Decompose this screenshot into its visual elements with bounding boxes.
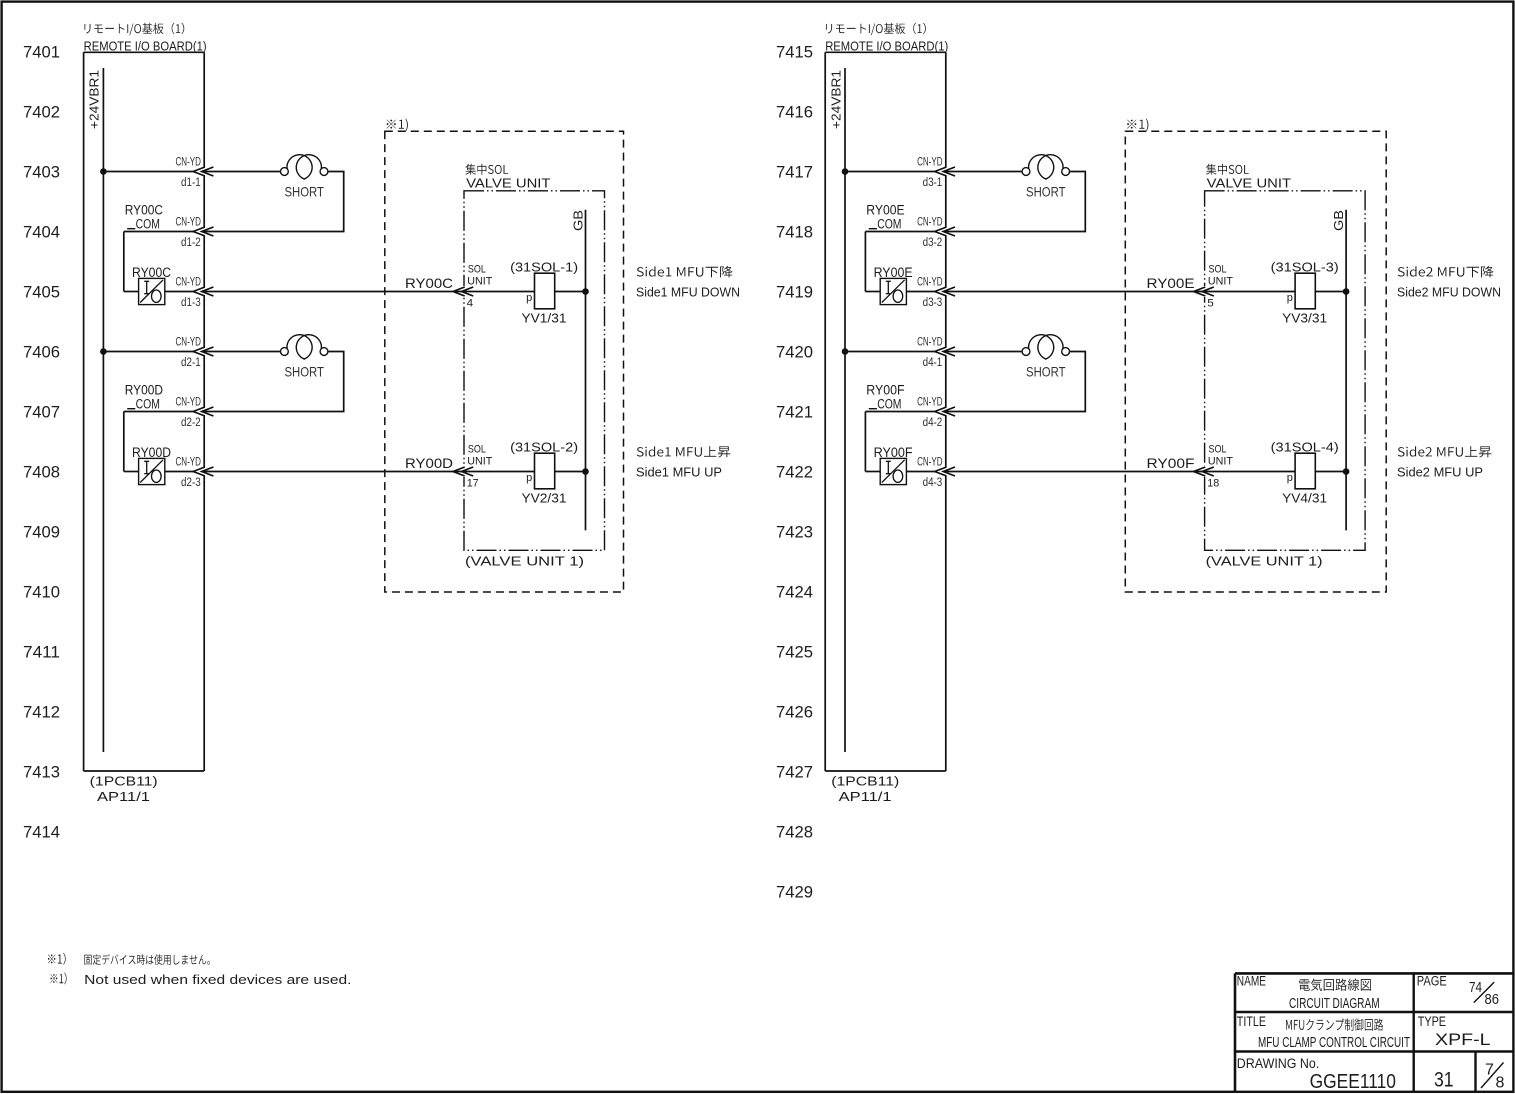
svg-text:RY00D: RY00D [125, 382, 164, 397]
svg-text:7403: 7403 [23, 163, 60, 181]
solenoid 31SOL-3 coil [1295, 273, 1315, 309]
relay RY00C label line2 [127, 228, 135, 230]
svg-text:74: 74 [1469, 980, 1482, 996]
svg-text:d1-1: d1-1 [181, 177, 201, 189]
svg-text:7411: 7411 [23, 643, 60, 661]
board label JP [85, 23, 185, 35]
svg-text:(31SOL-4): (31SOL-4) [1271, 440, 1339, 454]
junction dot on GB [582, 468, 589, 475]
SHORT jumper 2 [281, 348, 289, 356]
valve pin arrow [453, 287, 465, 296]
wire SHORT2 right+down [944, 352, 1086, 412]
relay RY00F I/O box [880, 458, 906, 484]
wire row1 pin to SHORT [202, 171, 281, 173]
svg-text:7404: 7404 [23, 223, 60, 241]
solenoid 31SOL-4 coil [1295, 453, 1315, 489]
svg-text:COM: COM [877, 217, 901, 232]
pin d1-3 arrow [193, 287, 205, 296]
valve pin arrow [453, 467, 465, 476]
svg-text:YV1/31: YV1/31 [522, 312, 567, 326]
svg-text:+24VBR1: +24VBR1 [828, 70, 843, 129]
svg-text:REMOTE I/O BOARD(1): REMOTE I/O BOARD(1) [825, 39, 948, 54]
relay RY00F label line2 [869, 408, 877, 410]
svg-text:CN-YD: CN-YD [917, 395, 943, 409]
svg-text:7406: 7406 [23, 343, 60, 361]
svg-text:p: p [526, 292, 532, 304]
valve pin arrow [1194, 287, 1206, 296]
svg-text:Side1 MFU DOWN: Side1 MFU DOWN [636, 286, 740, 300]
svg-text:CN-YD: CN-YD [176, 335, 202, 349]
board label JP [826, 23, 926, 35]
svg-text:COM: COM [877, 397, 901, 412]
note ref *1) at valve box [1127, 119, 1148, 132]
wire board to solenoid 31SOL-3 [944, 291, 1295, 293]
svg-text:NAME: NAME [1237, 974, 1266, 989]
SHORT jumper 1 [281, 168, 289, 176]
svg-text:CN-YD: CN-YD [176, 275, 202, 289]
svg-text:CN-YD: CN-YD [917, 215, 943, 229]
svg-text:YV4/31: YV4/31 [1282, 492, 1327, 506]
function label Side2 MFU下降 [1398, 266, 1494, 278]
svg-text:(1PCB11): (1PCB11) [90, 774, 158, 789]
svg-text:7422: 7422 [776, 463, 813, 481]
remote I/O board box (left) [83, 52, 85, 771]
solenoid 31SOL-1 coil [535, 273, 555, 309]
svg-text:5: 5 [1207, 298, 1214, 310]
svg-text:RY00F: RY00F [866, 382, 904, 397]
wire row6 relay to pin6 [165, 471, 193, 473]
pin d4-3 arrow [935, 467, 947, 476]
svg-text:CIRCUIT DIAGRAM: CIRCUIT DIAGRAM [1289, 995, 1380, 1012]
svg-text:UNIT: UNIT [467, 456, 492, 468]
relay COM vertical 1 [864, 232, 866, 292]
svg-text:7407: 7407 [23, 403, 60, 421]
svg-text:8: 8 [1496, 1074, 1505, 1091]
function label Side2 MFU上昇 [1398, 446, 1492, 457]
wire row4 bus to pin4 [845, 351, 935, 353]
SHORT jumper 1 [1022, 168, 1030, 176]
valve unit label JP 集中SOL [1206, 164, 1249, 175]
svg-text:AP11/1: AP11/1 [97, 789, 150, 804]
wire row4 pin to SHORT [944, 351, 1023, 353]
svg-text:7424: 7424 [776, 583, 813, 601]
svg-text:7427: 7427 [776, 763, 813, 781]
svg-text:RY00E: RY00E [1147, 275, 1195, 291]
power bus +24VBR1 [844, 68, 846, 752]
svg-text:d3-1: d3-1 [923, 177, 943, 189]
title JP MFUクランプ制御回路 [1286, 1019, 1383, 1031]
svg-text:CN-YD: CN-YD [917, 155, 943, 169]
function label Side1 MFU上昇 [637, 446, 731, 457]
wire solenoid to GB [555, 291, 586, 293]
svg-text:(VALVE UNIT 1): (VALVE UNIT 1) [465, 553, 584, 568]
svg-text:7426: 7426 [776, 703, 813, 721]
svg-text:7418: 7418 [776, 223, 813, 241]
svg-text:CN-YD: CN-YD [917, 275, 943, 289]
net GB line [585, 210, 587, 531]
svg-text:PAGE: PAGE [1417, 974, 1447, 989]
SHORT jumper 2 [1022, 348, 1030, 356]
svg-text:TYPE: TYPE [1418, 1014, 1446, 1029]
svg-text:Side1 MFU UP: Side1 MFU UP [636, 466, 722, 480]
svg-text:RY00E: RY00E [866, 202, 904, 217]
svg-text:7405: 7405 [23, 283, 60, 301]
svg-text:7410: 7410 [23, 583, 60, 601]
wire SHORT1 right+down [944, 172, 1086, 232]
svg-text:7412: 7412 [23, 703, 60, 721]
junction dot bus row4 [100, 348, 107, 355]
svg-text:(VALVE UNIT 1): (VALVE UNIT 1) [1206, 553, 1323, 568]
junction dot on GB [1343, 468, 1350, 475]
valve unit outer dashed box [385, 131, 624, 592]
svg-text:7421: 7421 [776, 403, 813, 421]
pin d1-2 arrow [193, 227, 205, 236]
svg-text:SOL: SOL [1209, 264, 1227, 276]
wire row5 COM to pin5 [865, 411, 934, 413]
svg-text:CN-YD: CN-YD [176, 155, 202, 169]
relay RY00C I/O box [139, 278, 165, 304]
wire board to solenoid 31SOL-4 [944, 471, 1295, 473]
svg-text:CN-YD: CN-YD [917, 335, 943, 349]
svg-text:YV3/31: YV3/31 [1282, 312, 1327, 326]
svg-text:7417: 7417 [776, 163, 813, 181]
svg-text:GGEE1110: GGEE1110 [1310, 1071, 1396, 1093]
svg-text:(31SOL-2): (31SOL-2) [510, 440, 578, 454]
pin d4-2 arrow [935, 407, 947, 416]
svg-text:SHORT: SHORT [284, 364, 324, 380]
svg-text:GB: GB [572, 210, 586, 231]
wire row1 bus to pin1 [845, 171, 935, 173]
sheet fraction slash [1481, 1063, 1504, 1089]
svg-text:TITLE: TITLE [1237, 1014, 1266, 1029]
svg-text:UNIT: UNIT [467, 276, 492, 288]
svg-text:UNIT: UNIT [1208, 456, 1233, 468]
svg-text:4: 4 [467, 298, 474, 310]
junction dot on GB [582, 288, 589, 295]
wire solenoid to GB [555, 471, 586, 473]
note *1) EN [51, 973, 67, 985]
power bus +24VBR1 [102, 68, 104, 752]
svg-text:VALVE UNIT: VALVE UNIT [1207, 176, 1291, 191]
wire row3 relay to pin3 [906, 291, 934, 293]
svg-text:d4-1: d4-1 [923, 357, 943, 369]
svg-text:COM: COM [136, 217, 160, 232]
svg-text:7409: 7409 [23, 523, 60, 541]
svg-text:VALVE UNIT: VALVE UNIT [466, 176, 550, 191]
svg-text:18: 18 [1207, 478, 1219, 490]
svg-text:86: 86 [1485, 992, 1500, 1008]
svg-text:d2-1: d2-1 [181, 357, 201, 369]
svg-text:AP11/1: AP11/1 [839, 789, 892, 804]
wire board to solenoid 31SOL-1 [202, 291, 534, 293]
svg-text:7415: 7415 [776, 43, 813, 61]
svg-text:d2-3: d2-3 [181, 477, 201, 489]
svg-text:RY00F: RY00F [1147, 455, 1195, 471]
wire row2 COM to pin2 [124, 231, 193, 233]
relay RY00D label line2 [127, 408, 135, 410]
wire row1 bus to pin1 [103, 171, 193, 173]
svg-text:(1PCB11): (1PCB11) [831, 774, 899, 789]
valve unit inner chain box [464, 191, 605, 551]
svg-text:SHORT: SHORT [1026, 184, 1066, 200]
svg-text:SHORT: SHORT [284, 184, 324, 200]
wire SHORT2 right+down [202, 352, 344, 412]
svg-text:SOL: SOL [468, 264, 486, 276]
svg-text:SOL: SOL [468, 444, 486, 456]
valve pin arrow [1194, 467, 1206, 476]
svg-text:UNIT: UNIT [1208, 276, 1233, 288]
pin d3-3 arrow [935, 287, 947, 296]
svg-text:7414: 7414 [23, 823, 60, 841]
svg-text:7413: 7413 [23, 763, 60, 781]
svg-text:REMOTE I/O BOARD(1): REMOTE I/O BOARD(1) [84, 39, 207, 54]
title block frame [1235, 972, 1513, 975]
wire row2 COM to pin2 [865, 231, 934, 233]
valve unit outer dashed box [1125, 131, 1386, 592]
wire row4 pin to SHORT [202, 351, 281, 353]
svg-text:d1-2: d1-2 [181, 237, 201, 249]
svg-text:d4-2: d4-2 [923, 417, 943, 429]
svg-text:COM: COM [136, 397, 160, 412]
svg-text:7425: 7425 [776, 643, 813, 661]
relay COM vertical 1 [123, 232, 125, 292]
page fraction slash [1474, 982, 1494, 1003]
relay RY00D I/O box [139, 458, 165, 484]
wire row1 pin to SHORT [944, 171, 1023, 173]
wire solenoid to GB [1315, 471, 1346, 473]
junction dot bus row1 [100, 168, 107, 175]
pin d2-2 arrow [193, 407, 205, 416]
svg-text:31: 31 [1434, 1068, 1454, 1091]
svg-text:p: p [1287, 292, 1293, 304]
valve unit inner chain box [1205, 191, 1366, 551]
svg-text:7: 7 [1485, 1062, 1494, 1079]
svg-text:7408: 7408 [23, 463, 60, 481]
svg-text:GB: GB [1332, 210, 1346, 231]
wire board to solenoid 31SOL-2 [202, 471, 534, 473]
svg-text:d4-3: d4-3 [923, 477, 943, 489]
svg-text:p: p [526, 472, 532, 484]
relay COM vertical 2 [864, 412, 866, 472]
wire SHORT1 right+down [202, 172, 344, 232]
svg-text:d1-3: d1-3 [181, 297, 201, 309]
svg-text:CN-YD: CN-YD [176, 455, 202, 469]
svg-text:7401: 7401 [23, 43, 60, 61]
svg-text:+24VBR1: +24VBR1 [87, 70, 102, 129]
function label Side1 MFU下降 [637, 266, 733, 278]
wire solenoid to GB [1315, 291, 1346, 293]
svg-text:(31SOL-3): (31SOL-3) [1271, 260, 1339, 274]
svg-text:SOL: SOL [1209, 444, 1227, 456]
svg-text:7429: 7429 [776, 883, 813, 901]
net GB line [1345, 210, 1347, 531]
pin d2-1 arrow [193, 347, 205, 356]
svg-text:7419: 7419 [776, 283, 813, 301]
relay RY00E I/O box [880, 278, 906, 304]
svg-text:CN-YD: CN-YD [176, 395, 202, 409]
svg-text:RY00D: RY00D [405, 455, 453, 471]
valve unit label JP 集中SOL [465, 164, 508, 175]
title block name JP 電気回路線図 [1299, 979, 1371, 991]
junction dot bus row4 [842, 348, 849, 355]
svg-text:7423: 7423 [776, 523, 813, 541]
wire row5 COM to pin5 [124, 411, 193, 413]
pin d1-1 arrow [193, 167, 205, 176]
svg-text:SHORT: SHORT [1026, 364, 1066, 380]
solenoid 31SOL-2 coil [535, 453, 555, 489]
svg-text:d3-2: d3-2 [923, 237, 943, 249]
svg-text:7428: 7428 [776, 823, 813, 841]
pin d3-1 arrow [935, 167, 947, 176]
relay COM vertical 2 [123, 412, 125, 472]
svg-text:Side2 MFU DOWN: Side2 MFU DOWN [1397, 286, 1501, 300]
remote I/O board box (right) [824, 52, 826, 771]
svg-text:CN-YD: CN-YD [917, 455, 943, 469]
relay RY00E label line2 [869, 228, 877, 230]
svg-text:XPF-L: XPF-L [1435, 1031, 1491, 1049]
pin d4-1 arrow [935, 347, 947, 356]
svg-text:7416: 7416 [776, 103, 813, 121]
svg-text:YV2/31: YV2/31 [522, 492, 567, 506]
pin d3-2 arrow [935, 227, 947, 236]
svg-text:RY00C: RY00C [125, 202, 164, 217]
note ref *1) at valve box [387, 119, 408, 132]
wire row3 relay to pin3 [165, 291, 193, 293]
svg-text:p: p [1287, 472, 1293, 484]
svg-text:RY00C: RY00C [405, 275, 453, 291]
wire row4 bus to pin4 [103, 351, 193, 353]
svg-text:d3-3: d3-3 [923, 297, 943, 309]
svg-text:7420: 7420 [776, 343, 813, 361]
junction dot bus row1 [842, 168, 849, 175]
note *1) JP [48, 953, 66, 965]
svg-text:17: 17 [467, 478, 479, 490]
pin d2-3 arrow [193, 467, 205, 476]
wire row6 relay to pin6 [906, 471, 934, 473]
svg-text:Not used when fixed devices ar: Not used when fixed devices are used. [84, 972, 351, 987]
svg-text:MFU CLAMP CONTROL CIRCUIT: MFU CLAMP CONTROL CIRCUIT [1258, 1034, 1410, 1051]
svg-text:Side2 MFU UP: Side2 MFU UP [1397, 466, 1483, 480]
svg-text:(31SOL-1): (31SOL-1) [510, 260, 578, 274]
svg-text:CN-YD: CN-YD [176, 215, 202, 229]
svg-text:7402: 7402 [23, 103, 60, 121]
svg-text:d2-2: d2-2 [181, 417, 201, 429]
junction dot on GB [1343, 288, 1350, 295]
svg-text:DRAWING No.: DRAWING No. [1237, 1056, 1320, 1071]
